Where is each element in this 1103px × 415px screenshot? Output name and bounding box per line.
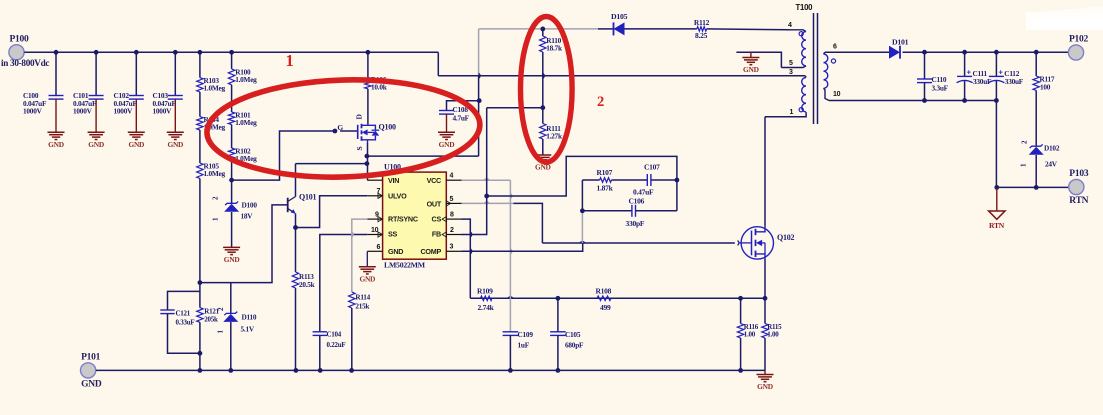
ground C100 [48, 132, 65, 149]
svg-text:COMP: COMP [420, 247, 441, 256]
return RTN symbol [989, 187, 1005, 230]
node sense junctions [556, 296, 768, 301]
wire base line [200, 205, 288, 283]
svg-text:FB: FB [432, 229, 441, 238]
resistor R116 [737, 298, 758, 338]
svg-text:1000V: 1000V [114, 106, 134, 115]
svg-text:Q102: Q102 [777, 233, 794, 242]
resistor R104 [197, 92, 226, 132]
resistor R115 [762, 298, 782, 338]
svg-text:5: 5 [789, 60, 793, 67]
transformer T100 core [814, 13, 818, 124]
port P103 [1069, 169, 1089, 206]
node FB junction [484, 194, 489, 199]
svg-text:24V: 24V [1045, 160, 1058, 169]
node Q100 source junctions [365, 154, 370, 166]
capacitor C104 [313, 331, 346, 371]
transformer T100 label [796, 3, 814, 12]
wire SS line [320, 235, 368, 332]
hop RT over SS [352, 232, 354, 237]
svg-text:680pF: 680pF [565, 341, 584, 350]
svg-text:R109: R109 [477, 287, 493, 296]
wire pin6 to D101 [825, 51, 889, 53]
hop VCC over FB [510, 193, 512, 198]
diode D101 [889, 38, 909, 59]
svg-text:6: 6 [377, 244, 381, 251]
svg-text:330pF: 330pF [626, 219, 645, 228]
wire output return [829, 101, 996, 188]
svg-text:D100: D100 [242, 201, 258, 210]
node R102/D100/gate junction [229, 178, 234, 183]
svg-text:215k: 215k [355, 303, 369, 311]
svg-text:1.27k: 1.27k [546, 132, 563, 141]
wire R117 to D102 [1035, 90, 1037, 146]
ground U100 [359, 251, 376, 283]
node return junctions [922, 98, 999, 103]
white patch top right [1026, 12, 1103, 30]
node divider tap [198, 280, 203, 285]
port P102 [1068, 35, 1088, 61]
svg-text:1: 1 [790, 109, 794, 116]
wire CS sense line [470, 297, 765, 299]
wire Q102 source [764, 259, 766, 298]
svg-text:1uF: 1uF [518, 341, 530, 350]
ground R111 [534, 155, 551, 172]
wire COMP line [462, 243, 583, 251]
svg-text:205k: 205k [204, 316, 218, 324]
svg-text:1.0Meg: 1.0Meg [204, 84, 226, 93]
wire D105 to R112 [625, 28, 697, 30]
svg-text:10: 10 [833, 91, 841, 98]
svg-text:10: 10 [371, 227, 379, 234]
transformer T100 output winding [824, 44, 841, 101]
wire D110 to rail [230, 322, 232, 370]
U100 pin stubs [367, 173, 461, 252]
capacitor C102 [114, 52, 144, 132]
svg-text:C104: C104 [327, 331, 342, 339]
svg-text:7: 7 [377, 188, 381, 195]
node gate junction [333, 129, 338, 134]
svg-text:R108: R108 [596, 287, 612, 296]
svg-text:VCC: VCC [427, 176, 441, 185]
hop CS over COMP [470, 249, 472, 254]
svg-text:2: 2 [450, 227, 454, 234]
wire source to startup node [367, 155, 479, 157]
svg-text:4: 4 [450, 173, 454, 180]
wire R114 to rail [351, 308, 353, 370]
svg-text:P101: P101 [81, 352, 101, 362]
annotation number 2 [597, 94, 604, 110]
wire R106 to Q100 drain [355, 89, 368, 125]
svg-text:18V: 18V [241, 212, 254, 221]
hop startup/pin3 crossing [479, 73, 481, 78]
svg-text:1: 1 [286, 51, 294, 70]
svg-text:2: 2 [597, 94, 604, 110]
svg-text:OUT: OUT [427, 200, 442, 209]
node C108 junction [477, 98, 482, 103]
svg-text:1.87k: 1.87k [597, 184, 614, 193]
wire VCC gray [462, 180, 511, 332]
svg-text:1.0Meg: 1.0Meg [204, 169, 226, 178]
resistor R106 [365, 52, 388, 91]
node ground rail junctions [198, 368, 743, 373]
zener diode D100 [212, 196, 258, 221]
resistor R113 [292, 228, 314, 290]
ground D100 [223, 247, 240, 264]
transistor Q101 [288, 193, 317, 214]
svg-text:SS: SS [388, 229, 398, 238]
wire OUT gray [462, 202, 514, 204]
wire ULVO line [296, 196, 368, 228]
capacitor C103 [153, 52, 183, 132]
svg-text:GND: GND [81, 379, 102, 389]
capacitor C121 [160, 291, 200, 353]
svg-text:P102: P102 [1069, 35, 1089, 45]
transformer T100 primary winding [781, 22, 806, 68]
wire Q100 source [367, 143, 369, 180]
annotation ellipse 2 [521, 17, 573, 163]
wire R115 to rail [764, 338, 766, 370]
node bottom return junctions [994, 185, 1038, 190]
wire FB line [462, 108, 487, 235]
transistor Q102 [738, 227, 795, 259]
svg-text:GND: GND [128, 140, 144, 149]
svg-text:0.33uF: 0.33uF [176, 319, 195, 327]
wire ground rail [96, 369, 765, 371]
wire pin3 line [438, 75, 805, 77]
capacitor C101 [73, 52, 104, 132]
wire Q102 drain [764, 117, 766, 227]
svg-text:GND: GND [388, 247, 403, 256]
white patch faint [1025, 6, 1103, 13]
svg-text:Q100: Q100 [379, 123, 396, 132]
svg-text:4.7uF: 4.7uF [453, 114, 470, 123]
resistor R110 [540, 29, 563, 53]
wire FB tap link [487, 107, 543, 109]
hop CS over FB [470, 232, 472, 237]
wire startup vertical [478, 76, 480, 156]
resistor R107 [582, 168, 613, 193]
resistor R121 [197, 308, 220, 324]
svg-text:C106: C106 [629, 197, 645, 206]
annotation ellipse 1 [205, 76, 481, 182]
node output rail junctions [922, 50, 1039, 55]
svg-text:C107: C107 [644, 163, 660, 172]
svg-text:LM5022MM: LM5022MM [384, 261, 426, 270]
resistor R103 [197, 52, 226, 92]
svg-text:100: 100 [1040, 83, 1051, 92]
resistor R114 [349, 292, 371, 311]
ground C108 [438, 132, 455, 149]
wire collector link [296, 163, 367, 165]
svg-text:5.1V: 5.1V [241, 325, 255, 334]
svg-text:3: 3 [450, 244, 454, 251]
svg-text:2.74k: 2.74k [478, 303, 495, 312]
wire Q101 emitter [295, 214, 297, 228]
svg-text:P100: P100 [10, 34, 30, 44]
resistor R101 [228, 85, 257, 127]
svg-text:GND: GND [88, 140, 104, 149]
hop VCC over COMP [510, 249, 512, 254]
wire T100 pin1 lead [765, 109, 806, 117]
node emitter junction [293, 225, 298, 230]
wire input rail [24, 52, 438, 76]
svg-text:1000V: 1000V [73, 106, 93, 115]
svg-text:RTN: RTN [989, 221, 1005, 230]
svg-text:D105: D105 [611, 12, 628, 21]
svg-text:1.0Meg: 1.0Meg [235, 118, 257, 127]
svg-text:R107: R107 [597, 168, 613, 177]
svg-text:R112: R112 [694, 18, 710, 27]
capacitor C106 [582, 180, 677, 228]
svg-text:GND: GND [167, 140, 183, 149]
svg-text:GND: GND [743, 65, 759, 74]
node R121/C121 junction [198, 351, 203, 356]
svg-text:ULVO: ULVO [388, 191, 407, 200]
resistor R100 [228, 52, 257, 85]
svg-text:8.25: 8.25 [695, 31, 708, 40]
svg-text:D110: D110 [242, 313, 257, 322]
white patch top right 2 [1032, 19, 1103, 29]
capacitor C105 [550, 298, 584, 370]
wire gate line Q102 [542, 242, 734, 244]
svg-text:CS: CS [432, 215, 442, 224]
node aux/R110 junction [540, 27, 545, 32]
transistor Q100 [337, 123, 396, 151]
wire D102 to return [1035, 155, 1037, 187]
svg-text:9: 9 [375, 212, 379, 219]
svg-text:R114: R114 [355, 294, 370, 302]
zener diode D110 [217, 283, 257, 334]
node comp right junction [675, 178, 680, 183]
resistor R111 [540, 108, 563, 141]
capacitor C100 [23, 52, 64, 132]
resistor R105 [197, 130, 226, 179]
wire R113 to rail [295, 288, 297, 370]
hop VCC gray over FB vertical [484, 179, 489, 181]
wire RT line gray [352, 219, 368, 292]
wire R110 lower [542, 52, 544, 108]
svg-text:D: D [355, 114, 364, 120]
svg-text:1000V: 1000V [23, 106, 43, 115]
svg-text:4: 4 [788, 22, 792, 29]
port P100 [1, 34, 49, 68]
svg-text:1.00: 1.00 [744, 331, 756, 339]
svg-text:8: 8 [450, 211, 454, 218]
zener diode D102 [1020, 140, 1060, 169]
svg-text:3.3uF: 3.3uF [932, 84, 949, 93]
wire OUT drive [514, 203, 543, 243]
svg-text:1.00: 1.00 [767, 331, 779, 339]
resistor R109 [477, 287, 495, 313]
ground C101 [88, 132, 105, 149]
wire D100 to ground [231, 212, 233, 247]
capacitor C108 [439, 101, 479, 133]
svg-text:P103: P103 [1069, 169, 1089, 179]
svg-text:1.0Meg: 1.0Meg [235, 75, 257, 84]
resistor R108 [596, 287, 612, 313]
ground bottom right [757, 370, 774, 391]
svg-text:Q101: Q101 [299, 193, 316, 202]
port P101 [81, 352, 102, 389]
svg-text:C105: C105 [565, 330, 581, 339]
svg-text:D102: D102 [1044, 144, 1060, 153]
resistor R117 [1033, 52, 1055, 91]
wire R112 to T100 pin4 [707, 28, 790, 31]
hop OUT gray over FB vertical [484, 202, 489, 204]
hop gate line over comp node [580, 242, 585, 244]
wire FB to comp network [487, 156, 677, 196]
resistor R112 [694, 18, 710, 40]
wire T100 pin5 to gnd hook [736, 52, 793, 67]
wire R105 to R121 [199, 179, 201, 308]
svg-text:20.5k: 20.5k [299, 281, 315, 289]
wire R116 to rail [740, 338, 742, 370]
svg-text:C121: C121 [176, 310, 191, 318]
capacitor C107 [612, 163, 677, 197]
transformer T100 secondary1 winding [789, 69, 806, 114]
svg-text:18.7k: 18.7k [546, 44, 563, 53]
svg-text:R113: R113 [299, 273, 314, 281]
svg-text:GND: GND [359, 275, 375, 284]
U100 pin names [388, 176, 442, 256]
ground C102 [128, 132, 145, 149]
svg-text:330uF: 330uF [1005, 77, 1024, 86]
op-amp U100 body [383, 163, 447, 270]
capacitor C112 [988, 52, 1023, 100]
svg-text:in 30-800Vdc: in 30-800Vdc [1, 58, 49, 68]
svg-text:10.0k: 10.0k [371, 83, 388, 92]
svg-text:G: G [337, 123, 343, 132]
svg-text:GND: GND [224, 255, 240, 264]
wire comp left vertical [581, 180, 583, 243]
svg-text:0.22uF: 0.22uF [327, 341, 346, 349]
wire output rail [903, 51, 1069, 53]
wire gate feed [232, 131, 335, 180]
resistor R102 [228, 125, 257, 164]
capacitor C111 [957, 52, 992, 100]
node comp left junction [580, 208, 585, 213]
wire CS line [462, 219, 471, 298]
hop sense line over C109 [508, 297, 513, 299]
svg-text:T100: T100 [796, 3, 814, 12]
svg-text:VIN: VIN [388, 176, 399, 185]
svg-text:GND: GND [48, 140, 64, 149]
svg-text:C109: C109 [518, 330, 534, 339]
svg-text:D101: D101 [892, 38, 909, 47]
hop R110/pin3 crossing [543, 73, 545, 78]
svg-text:RTN: RTN [1069, 196, 1088, 206]
svg-text:499: 499 [600, 303, 611, 312]
svg-text:1000V: 1000V [153, 106, 173, 115]
svg-text:S: S [355, 147, 364, 151]
ground C103 [167, 132, 184, 149]
wire R111 to ground [542, 139, 544, 155]
diode D105 [598, 12, 628, 35]
node divider FB tap [540, 105, 545, 110]
svg-text:0.47uF: 0.47uF [633, 188, 654, 197]
svg-text:GND: GND [757, 382, 773, 391]
capacitor C110 [917, 52, 949, 100]
svg-text:RT/SYNC: RT/SYNC [388, 215, 418, 224]
wire R102 to D100 [231, 161, 233, 203]
wire Q101 collector [295, 164, 297, 197]
svg-text:3: 3 [789, 69, 793, 76]
annotation number 1 [286, 51, 294, 70]
wire aux supply gray [479, 29, 598, 76]
svg-text:6: 6 [833, 44, 837, 51]
wire bottom return line [996, 186, 1068, 188]
capacitor C109 [503, 330, 534, 370]
wire R121 to rail [199, 322, 201, 370]
svg-text:GND: GND [439, 140, 455, 149]
svg-text:5: 5 [450, 196, 454, 203]
node input rail junctions [54, 50, 371, 55]
ground T100 pin5 [742, 52, 759, 74]
